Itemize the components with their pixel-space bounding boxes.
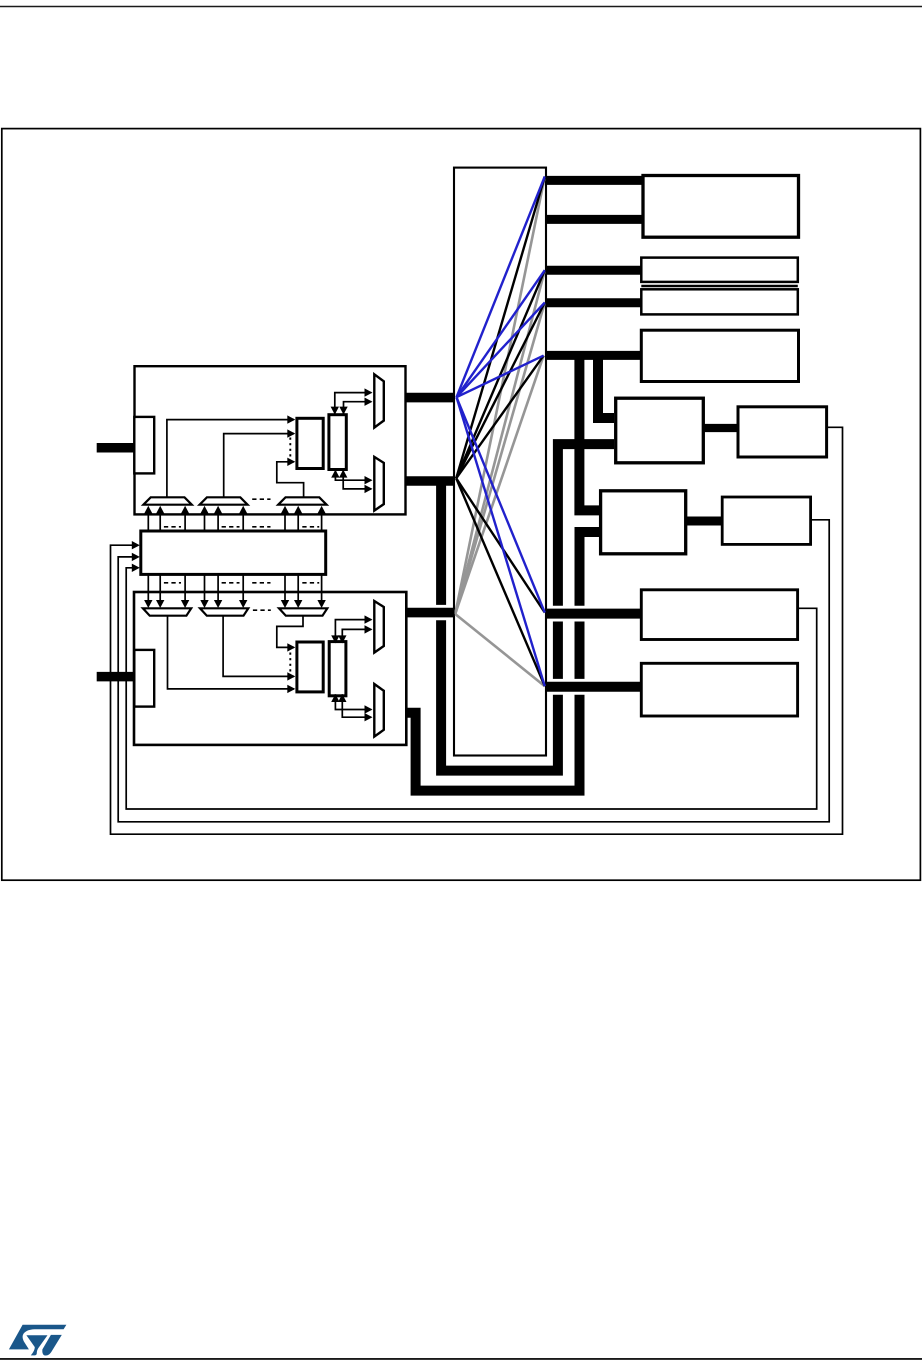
wire: matrix black crossbar lines from master B <box>456 177 545 479</box>
block D <box>641 330 798 381</box>
wire: feedback loop 1 from block F around to queue-table arrow 1 <box>111 427 843 834</box>
wires: prefetch to bottom mux double arrows <box>335 470 371 480</box>
wire: matrix gray crossbar lines from master C <box>455 177 545 615</box>
wire: feedback loop 2 from block F2 around to queue-table arrow 2 <box>118 520 829 822</box>
figure frame <box>2 129 921 881</box>
wire: slave bus bar 2 to block A <box>546 215 645 224</box>
bank2 input mux 2 <box>200 608 248 615</box>
bank1 address register <box>134 417 154 474</box>
wire: slave bus bar 5 to block D <box>546 351 643 360</box>
bus matrix U1 <box>454 168 546 756</box>
wire: thick vertical bus left of matrix, from CPU-I stub down, right, up into block E <box>441 444 614 770</box>
wire: bank2 mux2 output to buffer <box>223 616 294 676</box>
wire: feedback loop 3 from block G around to queue-table arrow 3 <box>126 568 817 809</box>
wire: slave bus bar D to block G (white halo over verticals) <box>548 606 640 622</box>
wire: slave bus bar 4 to block C <box>546 298 643 307</box>
block E2 <box>601 491 686 554</box>
wires: bank2 prefetch to bottom mux double arrows <box>335 694 371 709</box>
bank1 128-bit prefetch rect <box>329 415 346 470</box>
block B <box>641 258 798 282</box>
bank2 input mux 3 <box>279 608 327 615</box>
wires: prefetch to top mux double arrows <box>335 393 371 414</box>
flash bank 2 block <box>134 592 406 745</box>
wire: bank1 mux2 output to buffer <box>224 434 294 497</box>
dashed marks between bank1 muxes <box>252 498 270 500</box>
wire: bank2 mux1 output to buffer <box>168 616 295 689</box>
dashed continuation marks above queue table <box>164 526 181 528</box>
wire: slave bus bar 1 to block A <box>546 176 645 185</box>
top header rule <box>0 6 922 8</box>
bank2 input mux 1 (flat trapezoid, flipped) <box>143 608 191 615</box>
wire: thick input stub into bank1 register <box>97 443 135 453</box>
block E <box>616 398 704 463</box>
ST Microelectronics logo <box>9 1325 67 1356</box>
dashed marks between bank2 muxes <box>253 609 271 611</box>
wire: thick bus stub flash bank1 port B to matrix <box>405 476 455 486</box>
wire: bank1 mux3 output elbow to buffer <box>277 462 304 497</box>
wire: slave bus bar 3 to block B <box>546 266 643 275</box>
wire: thick outer bus from lower flash bank stub down, right, up into block E2 (2nd input) <box>407 532 599 791</box>
wire: thick bus stub flash bank2 port C to matrix (with white halo over vertical) <box>408 605 452 620</box>
bank2 output mux bottom (trapezoid) <box>374 684 384 737</box>
dashed continuation marks below queue table <box>164 582 181 584</box>
flash bank 1 block <box>135 366 406 514</box>
bank1 data buffer rect <box>297 418 323 468</box>
block F2 <box>722 497 810 544</box>
wire: thick bar E2 to F2 <box>686 517 723 526</box>
bank2 address register <box>134 650 154 707</box>
separator line under block B <box>641 285 798 288</box>
wire: matrix blue crossbar lines from master A <box>457 177 545 398</box>
wires: queue lines up into bank1 muxes <box>147 513 149 532</box>
bank2 data buffer rect <box>297 642 323 692</box>
wires: bank2 prefetch to top mux double arrows <box>335 620 371 643</box>
wire: thick vertical bus from slave bar 5 down into block E2 (1st input) <box>579 357 599 510</box>
dotted line on bank1 buffer left edge <box>289 438 291 460</box>
block F <box>738 407 827 457</box>
wire: thick input stub into bank2 register <box>97 672 134 682</box>
block C <box>641 289 798 314</box>
block G <box>641 590 797 640</box>
wire: bank2 mux3 output elbow to buffer <box>277 616 303 647</box>
wire: slave bus bar E to block H (white halo over verticals) <box>548 679 640 695</box>
wire: bank1 mux1 output to buffer <box>167 420 294 497</box>
bank1 input mux 2 <box>200 497 248 504</box>
block H <box>641 663 797 716</box>
wires: queue lines down into bank2 muxes <box>147 574 149 601</box>
bank1 input mux 1 (flat trapezoid) <box>143 497 191 504</box>
bottom footer rule <box>0 1358 922 1360</box>
bank2 output mux top (trapezoid) <box>374 601 384 653</box>
bank1 input mux 3 <box>278 497 326 504</box>
block A (top right) <box>643 176 799 238</box>
wire: thick vertical bus from slave bar 5 down into block E left <box>598 357 614 418</box>
bank1 output mux bottom (trapezoid) <box>374 457 384 511</box>
dotted line on bank2 buffer left edge <box>289 653 291 673</box>
bank1 output mux top (trapezoid) <box>374 374 384 427</box>
wire: thick bus stub flash bank1 port A to matrix <box>405 393 455 403</box>
bank2 128-bit prefetch rect <box>329 642 346 696</box>
queue table (between flash banks) <box>141 531 326 574</box>
wire: thick bar E to F <box>703 424 738 432</box>
